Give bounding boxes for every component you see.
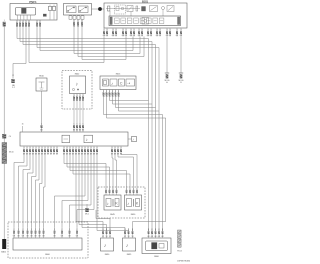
svg-text:VJ: VJ — [132, 236, 134, 238]
svg-text:♪: ♪ — [86, 137, 88, 142]
svg-text:VJ: VJ — [109, 236, 111, 238]
svg-text:MC10: MC10 — [9, 152, 14, 154]
svg-text:BE: BE — [50, 153, 52, 155]
svg-text:C: C — [120, 82, 123, 86]
svg-text:♪: ♪ — [132, 138, 134, 142]
svg-text:VJ: VJ — [106, 236, 108, 238]
svg-text:MA10: MA10 — [1, 250, 6, 253]
svg-text:VJ: VJ — [102, 236, 104, 238]
svg-text:PLK4: PLK4 — [177, 251, 181, 253]
svg-text:MC1: MC1 — [85, 214, 89, 216]
svg-text:BE: BE — [53, 153, 55, 155]
svg-text:♪: ♪ — [111, 81, 113, 86]
svg-text:1: 1 — [4, 20, 5, 22]
svg-text:C5FM0TK4B0: C5FM0TK4B0 — [177, 261, 191, 263]
svg-text:12: 12 — [12, 75, 14, 77]
svg-text:5.2: 5.2 — [12, 87, 15, 89]
svg-text:VJ: VJ — [128, 236, 130, 238]
svg-text:16: 16 — [22, 123, 24, 125]
svg-text:♪: ♪ — [127, 201, 129, 206]
svg-text:C4: C4 — [9, 136, 11, 138]
svg-text:VJ: VJ — [124, 236, 126, 238]
svg-text:♪: ♪ — [107, 201, 109, 206]
svg-text:BE: BE — [47, 153, 49, 155]
svg-text:BE: BE — [56, 153, 58, 155]
